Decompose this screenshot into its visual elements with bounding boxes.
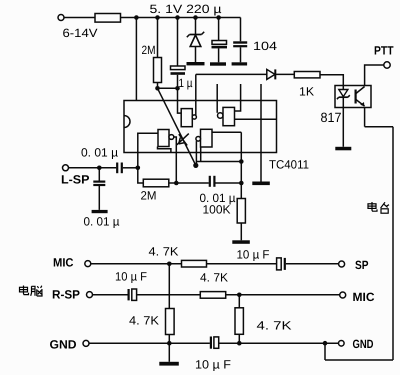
wire row1 to cap bbox=[207, 263, 277, 265]
wire gate D input vertical bbox=[240, 132, 242, 183]
node H junction bbox=[97, 166, 102, 171]
capacitor C9 10uF GND row bbox=[211, 337, 339, 349]
terminal MIC left bbox=[85, 261, 91, 267]
capacitor C2 220u plus plate bbox=[212, 41, 227, 45]
wire gate C input bbox=[138, 133, 158, 168]
svg-text:GND: GND bbox=[50, 338, 77, 352]
node K junction bbox=[239, 181, 244, 186]
gate A NAND bbox=[181, 109, 192, 127]
wire node F to node G bbox=[158, 87, 178, 89]
capacitor C1 1u minus plate bbox=[171, 72, 186, 75]
resistor R5 4.7K row1 bbox=[182, 260, 207, 267]
svg-text:4. 7K: 4. 7K bbox=[200, 271, 228, 285]
zener diode ZD 5.1V bbox=[187, 32, 204, 47]
ground IC pin bbox=[252, 182, 269, 186]
wire pointer diagonal bbox=[158, 88, 196, 165]
svg-text:1 µ: 1 µ bbox=[179, 76, 193, 90]
wire emitter down bbox=[364, 108, 366, 127]
ground zener bbox=[187, 62, 205, 65]
wire GND row left bbox=[89, 342, 210, 344]
resistor R8 4.7K vertical right bbox=[235, 308, 243, 335]
wire row2 right bbox=[226, 294, 340, 296]
wire rail to 1u cap bbox=[177, 18, 179, 67]
svg-text:MIC: MIC bbox=[353, 290, 375, 304]
svg-text:0. 01 µ: 0. 01 µ bbox=[81, 146, 118, 160]
terminal GND right bbox=[339, 341, 345, 347]
wire node K to 100K bbox=[240, 183, 242, 199]
resistor R2 1K bbox=[294, 72, 320, 78]
svg-text:10 µ F: 10 µ F bbox=[115, 269, 147, 283]
svg-text:L-SP: L-SP bbox=[61, 173, 90, 187]
node I junction bbox=[136, 166, 141, 171]
capacitor C6 0.01u coupling bbox=[210, 176, 242, 187]
svg-text:R-SP: R-SP bbox=[52, 288, 80, 302]
wire gate C input 2 staircase bbox=[158, 147, 171, 153]
IC notch bbox=[124, 116, 130, 128]
svg-text:1K: 1K bbox=[299, 85, 314, 99]
wire 220u to ground bbox=[218, 48, 220, 62]
svg-text:6-14V: 6-14V bbox=[63, 26, 98, 40]
capacitor C5 0.01u series bbox=[99, 163, 138, 174]
node rail junction B bbox=[155, 15, 160, 20]
wire 2M bottom to node F bbox=[157, 83, 159, 89]
wire zener to ground bbox=[195, 47, 197, 63]
terminal GND left bbox=[83, 340, 89, 346]
wire rail corner to 104 cap bbox=[240, 18, 242, 42]
svg-text:4. 7K: 4. 7K bbox=[149, 245, 179, 259]
svg-text:10 µ F: 10 µ F bbox=[237, 248, 270, 262]
wire rail to 220u cap bbox=[218, 18, 220, 41]
capacitor C1 1u plus plate bbox=[171, 66, 186, 70]
resistor R6 4.7K row2 bbox=[200, 292, 225, 299]
terminal R-SP bbox=[87, 292, 93, 298]
capacitor C3 104 bottom plate bbox=[233, 45, 247, 47]
wire diode to 1K bbox=[275, 73, 294, 75]
wire R-SP to cap bbox=[93, 294, 128, 296]
wire gate D output down to node bbox=[195, 141, 197, 165]
svg-text:PTT: PTT bbox=[374, 44, 394, 58]
capacitor C2 220u minus plate bbox=[212, 46, 228, 49]
wire 2M to cap bbox=[169, 182, 209, 184]
LED inside 817 bbox=[337, 86, 350, 100]
gate D bubble bbox=[196, 137, 201, 142]
node blob at diagonal end bbox=[193, 163, 198, 168]
node junction 100K top bbox=[239, 159, 244, 164]
resistor R1 2M vertical bbox=[154, 58, 162, 83]
capacitor C7 10uF SP coupling bbox=[277, 258, 339, 270]
wire 1u cap to node G bbox=[177, 75, 179, 89]
pointer cross mark bbox=[177, 134, 189, 146]
node rail junction E bbox=[216, 15, 221, 20]
node O junction bbox=[237, 341, 242, 346]
wire node N to ground bbox=[168, 343, 170, 362]
wire emitter to right bus bbox=[365, 126, 393, 128]
wire gate B input 2 branch bbox=[235, 118, 277, 120]
svg-text:817: 817 bbox=[321, 110, 342, 125]
ground 104 bbox=[232, 62, 248, 65]
terminal MIC right bbox=[340, 292, 346, 298]
capacitor C8 10uF R-SP coupling bbox=[129, 289, 201, 300]
wire 104 to ground bbox=[240, 47, 242, 62]
wire rail drop to IC pin14 bbox=[135, 18, 137, 101]
wire right bus vertical bbox=[392, 127, 394, 360]
ground shunt cap bbox=[92, 210, 108, 213]
svg-text:104: 104 bbox=[253, 39, 277, 53]
svg-text:0. 01 µ: 0. 01 µ bbox=[84, 215, 120, 229]
wire 5.1V rail bbox=[121, 17, 241, 19]
gate A bubble bbox=[192, 115, 196, 119]
wire diode row bbox=[196, 73, 267, 75]
node F junction bbox=[155, 86, 160, 91]
node L junction bbox=[167, 262, 172, 267]
wire bottom bus bbox=[325, 359, 393, 361]
node rail junction A bbox=[134, 15, 139, 20]
wire gate D bottom stub bbox=[200, 147, 202, 162]
pin stub gate B input 2 and ground run bbox=[260, 84, 262, 182]
node G junction bbox=[175, 86, 180, 91]
wire node row to 100K node bbox=[196, 161, 241, 163]
op-amp U2 optocoupler 817 box bbox=[335, 86, 371, 108]
svg-text:10 µ F: 10 µ F bbox=[195, 358, 231, 372]
wire PTT to optocoupler collector bbox=[365, 65, 384, 86]
terminal 6-14V power input bbox=[58, 15, 64, 21]
wire MIC row left bbox=[91, 263, 182, 265]
capacitor C4 0.01u shunt bbox=[93, 168, 105, 210]
op-amp U1 TC4011 IC outline bbox=[124, 101, 277, 153]
resistor R3 2M horizontal bbox=[143, 179, 169, 187]
wire L-SP to node H bbox=[69, 167, 100, 169]
svg-text:SP: SP bbox=[355, 258, 369, 272]
ground 100K bbox=[232, 240, 250, 244]
label dian-nao computer CJK bbox=[20, 286, 43, 297]
transistor Q1 phototransistor inside 817 bbox=[356, 87, 365, 107]
node M junction bbox=[237, 293, 242, 298]
resistor R-in (series dropper) bbox=[95, 14, 121, 23]
svg-text:2M: 2M bbox=[142, 43, 156, 57]
wire gate D input bbox=[212, 131, 241, 133]
node rail junction C bbox=[175, 15, 180, 20]
ground 220u bbox=[210, 62, 226, 65]
pin stub gate B output bbox=[216, 84, 218, 113]
label dian-tai radio CJK bbox=[368, 202, 389, 213]
wire gate C output down bbox=[174, 137, 177, 183]
wire node L down bbox=[168, 264, 170, 309]
wire 1K to optocoupler LED bbox=[320, 75, 343, 86]
terminal L-SP bbox=[63, 165, 69, 171]
svg-text:100K: 100K bbox=[203, 203, 231, 217]
capacitor C3 104 top plate bbox=[233, 41, 247, 43]
terminal SP bbox=[339, 261, 345, 267]
pin stub gate B input 1 bbox=[235, 84, 241, 111]
svg-text:MIC: MIC bbox=[53, 256, 74, 270]
gate C NAND bbox=[158, 130, 169, 147]
wire node M down bbox=[238, 295, 240, 308]
wire R8 to GND row bbox=[238, 334, 240, 343]
wire R7 to GND row bbox=[168, 335, 170, 344]
svg-text:GND: GND bbox=[353, 337, 374, 351]
ground GND row bbox=[159, 362, 179, 366]
gate D NAND bbox=[201, 129, 213, 147]
ground optocoupler LED bbox=[335, 147, 351, 151]
svg-text:5. 1V 220 µ: 5. 1V 220 µ bbox=[150, 2, 222, 16]
gate B bubble bbox=[218, 113, 223, 118]
wire rail to 2M resistor bbox=[157, 18, 159, 58]
wire node G to gate A input bbox=[178, 88, 182, 113]
wire rail to zener bbox=[195, 18, 197, 35]
terminal PTT bbox=[384, 62, 390, 68]
wire bottom bus up to GND node bbox=[324, 343, 326, 360]
wire LED cathode to ground bbox=[342, 97, 344, 147]
diode D1 bbox=[267, 69, 276, 79]
resistor R7 4.7K vertical left bbox=[166, 309, 175, 335]
node P junction bbox=[323, 341, 328, 346]
gate B NAND bbox=[223, 107, 235, 125]
svg-text:TC4011: TC4011 bbox=[269, 158, 309, 172]
wire node I to 2M feedback bbox=[138, 168, 144, 183]
svg-text:4. 7K: 4. 7K bbox=[257, 319, 292, 333]
wire gate A output to diode row bbox=[195, 74, 197, 115]
resistor R4 100K bbox=[237, 199, 245, 224]
node rail junction D bbox=[193, 15, 198, 20]
wire 100K to ground bbox=[240, 223, 242, 240]
svg-text:2M: 2M bbox=[141, 189, 157, 203]
svg-text:4. 7K: 4. 7K bbox=[129, 314, 159, 328]
node N junction bbox=[167, 341, 172, 346]
wire input to resistor bbox=[64, 17, 95, 19]
gate C bubble bbox=[169, 135, 174, 140]
node J junction bbox=[174, 181, 179, 186]
